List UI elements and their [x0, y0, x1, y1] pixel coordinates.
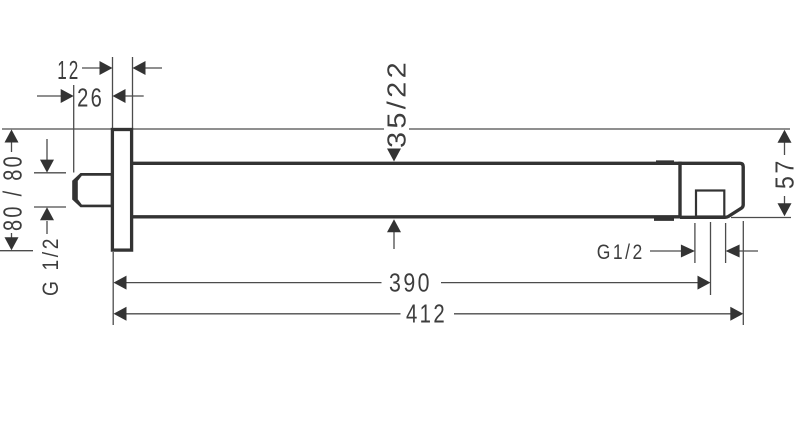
svg-text:12: 12: [57, 55, 80, 85]
extension line 12-left (wall face): [112, 57, 114, 128]
inlet connector thick left face: [78, 176, 111, 205]
svg-text:G1/2: G1/2: [597, 241, 645, 264]
dim 57 arrow down: [778, 203, 792, 216]
dim 390 arrow left: [114, 276, 127, 290]
dim G1/2 right line: [650, 250, 758, 252]
dim 57 arrow up: [778, 130, 792, 143]
arm tube bottom edge: [133, 215, 680, 218]
dim G1/2 left stems: [46, 139, 48, 234]
svg-text:G 1/2: G 1/2: [38, 236, 63, 296]
collar at tube end: [654, 160, 674, 221]
end cap body: [680, 163, 743, 217]
dim 35/22 stems: [393, 149, 395, 249]
extension line outlet left: [694, 223, 696, 263]
wall flange plate: [112, 130, 131, 251]
dim G1/2 right arrow right: [681, 245, 695, 258]
dim 412 arrow right: [730, 307, 743, 321]
extension line cap right (412 right): [742, 221, 744, 325]
extension line 26-left: [73, 85, 75, 173]
dim 26 arrow left: [113, 89, 126, 103]
inlet connector (G 1/2 thread block): [72, 173, 113, 207]
dim 26 line: [37, 95, 144, 97]
extension line 57 bottom: [731, 217, 791, 219]
dim 412 line: [126, 313, 731, 315]
extension line 12-right: [132, 57, 134, 128]
dim 35/22 arrow up: [387, 219, 401, 232]
dim 12 arrow right: [100, 61, 113, 75]
extension line connector top: [34, 172, 66, 174]
dim 80/80 stems: [11, 141, 13, 239]
dim G1/2 left arrow up: [40, 207, 54, 220]
dim 390 line: [126, 282, 698, 284]
outlet square (G1/2): [696, 191, 724, 217]
svg-text:390: 390: [389, 268, 432, 298]
svg-text:80 / 80: 80 / 80: [0, 154, 28, 231]
svg-text:35/22: 35/22: [382, 59, 412, 148]
dim 35/22 arrow down: [387, 149, 401, 162]
extension line connector bottom: [34, 206, 66, 208]
extension line outlet right: [725, 223, 727, 263]
extension line outlet center (390 right): [710, 222, 712, 295]
svg-text:26: 26: [77, 83, 104, 113]
dim 80/80 arrow up: [5, 130, 19, 143]
dim 26 arrow right: [61, 89, 74, 103]
svg-text:412: 412: [406, 299, 447, 329]
extension line 80/80 bottom: [0, 250, 33, 252]
dim 412 arrow left: [114, 307, 127, 321]
svg-text:57: 57: [770, 158, 797, 189]
dim G1/2 right arrow left: [726, 245, 740, 258]
extension line below flange (390/412 left): [112, 252, 114, 325]
dim 390 arrow right: [698, 276, 711, 290]
top reference line (flange top extended): [2, 128, 790, 130]
dim 80/80 arrow down: [5, 237, 19, 250]
joint line tube/cap: [678, 162, 681, 219]
dim 12 line: [82, 67, 162, 69]
dim 57 stems: [784, 142, 786, 204]
dim 12 arrow left: [133, 61, 146, 75]
dim G1/2 left arrow down: [40, 160, 54, 173]
arm tube top edge: [133, 162, 680, 165]
